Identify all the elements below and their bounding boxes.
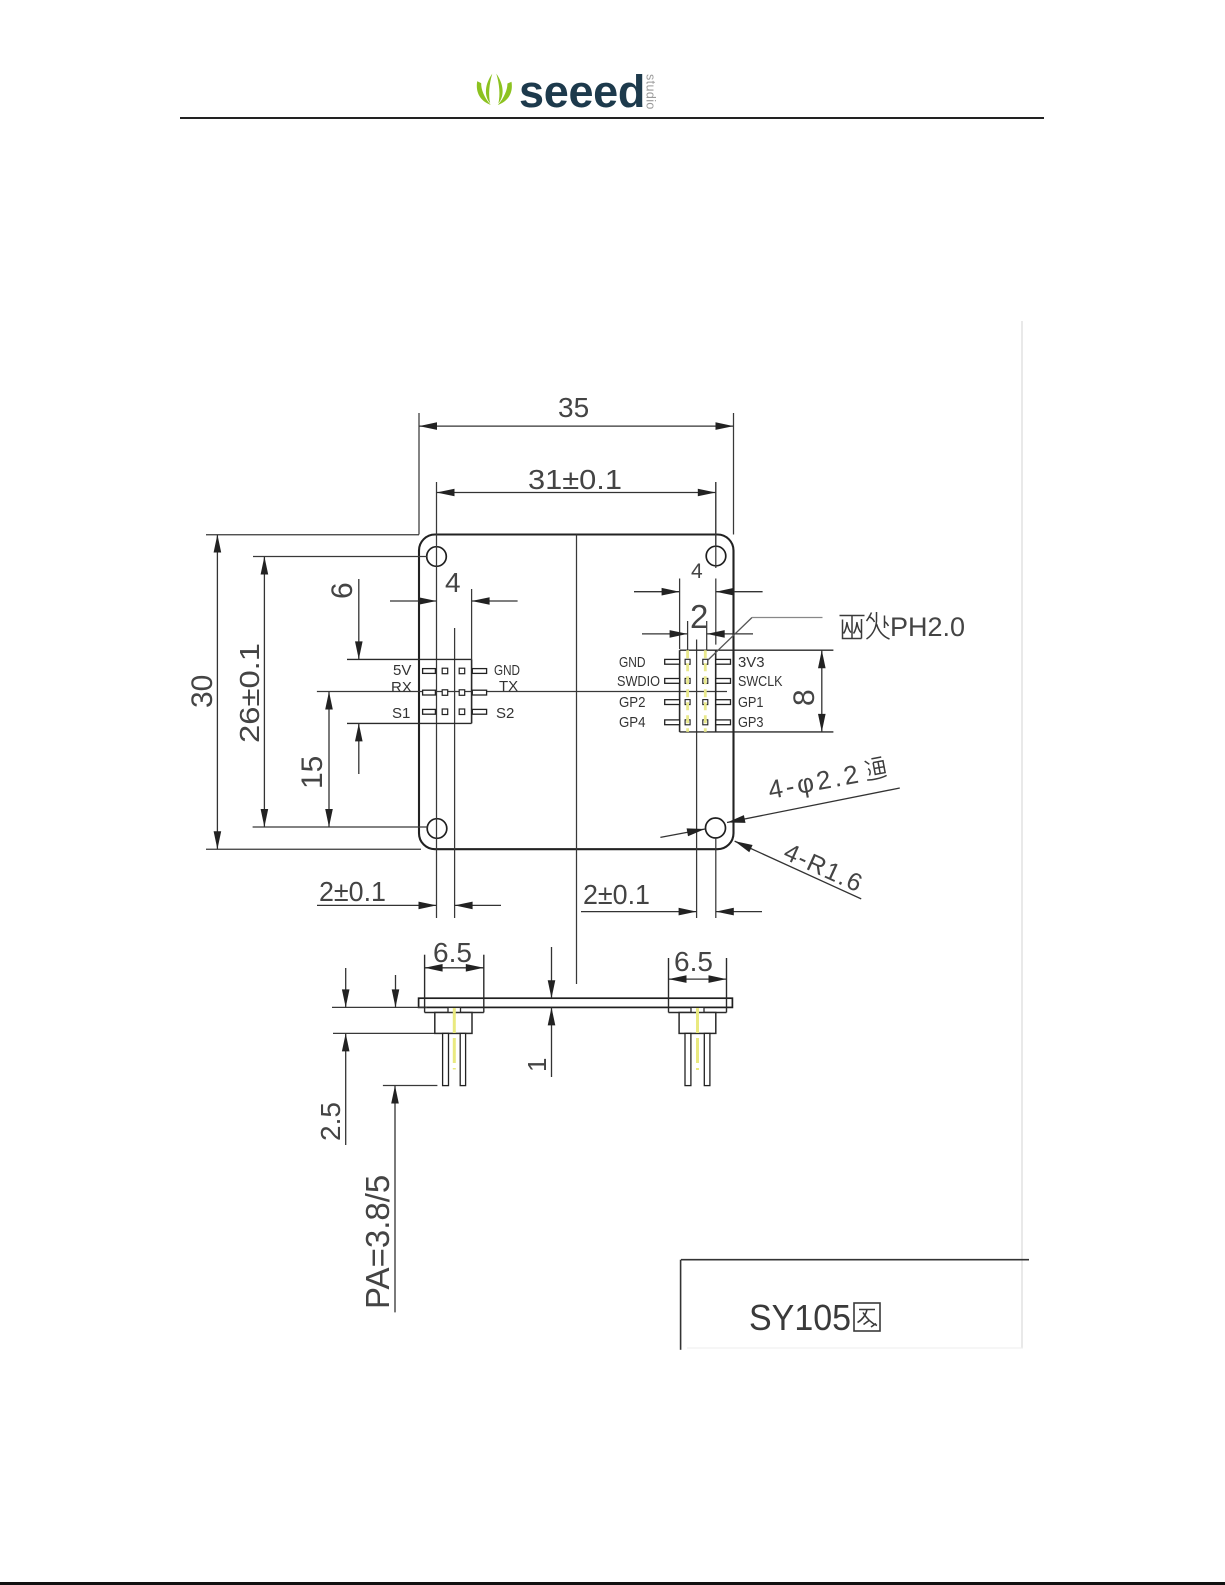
left connector J1 top view — [347, 659, 520, 723]
J2 left pads — [665, 659, 680, 724]
horizontal centerline middle row — [317, 691, 727, 693]
svg-text:2±0.1: 2±0.1 — [319, 876, 386, 907]
svg-text:GP1: GP1 — [738, 694, 764, 711]
svg-text:SWDIO: SWDIO — [617, 673, 660, 690]
centerline right connector vertical — [696, 640, 698, 919]
J2 body bottom edge with extension to 8 dim — [680, 731, 834, 733]
label CJK chu (place) — [867, 612, 890, 639]
extension line 31 right upper — [715, 482, 717, 546]
svg-text:2: 2 — [690, 598, 708, 635]
right header pin 1 — [685, 1033, 691, 1085]
seeed studio logo — [477, 66, 658, 117]
svg-text:S1: S1 — [392, 705, 410, 722]
svg-text:31±0.1: 31±0.1 — [528, 464, 622, 495]
svg-text:4: 4 — [691, 560, 703, 583]
svg-text:15: 15 — [296, 756, 329, 789]
svg-text:SWCLK: SWCLK — [738, 673, 783, 690]
right header notch — [691, 1007, 704, 1014]
right header block — [679, 1013, 716, 1034]
svg-text:RX: RX — [391, 679, 412, 696]
extension pins bottom left — [383, 1085, 438, 1087]
svg-text:GND: GND — [494, 662, 520, 679]
extension line 35 left — [418, 413, 420, 535]
svg-text:4-R1.6: 4-R1.6 — [780, 838, 868, 898]
extension plate bottom left — [332, 1006, 427, 1008]
dimension 31 +-0.1 — [437, 464, 716, 496]
centerline left connector vertical — [454, 628, 456, 918]
drawing frame faint right border — [1021, 321, 1023, 1348]
J2 body top edge with extension to 8 dim — [680, 649, 834, 651]
svg-text:26±0.1: 26±0.1 — [234, 643, 265, 743]
dimension 6 connector height — [326, 579, 363, 774]
title block left line — [680, 1260, 682, 1350]
svg-text:6.5: 6.5 — [433, 937, 472, 968]
extension top hole center left — [253, 556, 427, 558]
svg-text:GP2: GP2 — [619, 694, 646, 711]
left header yellow centerline — [453, 1008, 456, 1070]
side view left header — [425, 955, 484, 1086]
mounting hole bottom-left — [427, 819, 447, 839]
J1 body top edge with extension — [347, 658, 472, 660]
J2 pin squares — [685, 659, 708, 725]
J1 left pads — [423, 669, 436, 715]
right connector J2 top view — [617, 650, 833, 732]
extension board bottom edge left — [206, 848, 421, 850]
svg-text:studio: studio — [644, 74, 658, 110]
left header pin 1 — [443, 1033, 449, 1085]
label 4-dia2.2 — [766, 754, 888, 805]
left header pin 2 — [460, 1033, 465, 1085]
J2 yellow pin column lines — [686, 650, 689, 732]
dimension 30 vertical — [186, 535, 221, 850]
J2 right pads — [716, 659, 731, 724]
svg-text:5V: 5V — [393, 662, 411, 679]
leader 4-R1.6 corner radius — [735, 841, 862, 899]
svg-text:GP4: GP4 — [619, 714, 646, 731]
dimension 35 — [419, 392, 734, 430]
dimension 2 pin pitch — [642, 598, 753, 650]
label 4-R1.6 — [780, 838, 868, 898]
mounting hole top-left — [427, 547, 447, 567]
title CJK glyph tu (figure) — [854, 1303, 880, 1331]
svg-text:S2: S2 — [496, 705, 514, 722]
header rule — [180, 117, 1044, 119]
dimension 2+-0.1 bottom right — [581, 879, 762, 915]
dimension 1 plate thickness — [522, 947, 555, 1077]
right header lip bottom — [669, 1012, 727, 1014]
centerline through left holes vertical — [436, 482, 438, 918]
dimension 2+-0.1 bottom left — [317, 876, 501, 909]
left header lip bottom — [425, 1012, 484, 1014]
dimension 4 right connector — [634, 560, 763, 649]
svg-text:3V3: 3V3 — [738, 654, 765, 671]
extension bottom hole center left — [253, 826, 428, 828]
J2 body right edge — [715, 650, 717, 732]
svg-text:2±0.1: 2±0.1 — [583, 879, 650, 910]
dimension 2.5 header block — [315, 968, 350, 1145]
J1 right pads — [472, 669, 486, 715]
svg-text:PH2.0: PH2.0 — [890, 612, 965, 642]
label CJK liang (two) — [840, 616, 865, 639]
leader 4-dia2.2 through hole — [660, 788, 899, 837]
svg-text:6.5: 6.5 — [674, 946, 713, 977]
dimension PA=3.8/5 pin length — [359, 975, 399, 1312]
side view right header — [669, 958, 727, 1086]
dimension 8 connector height — [788, 650, 826, 732]
left header side edges — [424, 955, 426, 1013]
svg-text:35: 35 — [558, 392, 589, 423]
dimension 6.5 right header — [669, 946, 727, 983]
J2 body left edge — [679, 650, 681, 732]
svg-text:4: 4 — [445, 567, 461, 598]
left header block — [435, 1013, 472, 1034]
dimension 15 vertical — [296, 692, 333, 828]
right header yellow centerline — [696, 1008, 699, 1070]
left header notch — [448, 1007, 461, 1014]
PCB board outline top view — [419, 535, 734, 850]
svg-text:seeed: seeed — [519, 66, 645, 117]
board central vertical centerline — [576, 535, 578, 985]
dimension 26 +-0.1 vertical — [234, 557, 268, 828]
label CJK tong (through) — [864, 757, 887, 781]
right header side edges — [668, 958, 670, 1013]
svg-text:SY105: SY105 — [749, 1297, 851, 1338]
svg-text:1: 1 — [522, 1058, 552, 1072]
side view PCB plate — [419, 998, 733, 1007]
svg-text:8: 8 — [788, 689, 821, 706]
J1 pin squares — [442, 668, 465, 714]
logo leaf icon — [477, 74, 512, 105]
drawing frame faint bottom border — [687, 1347, 1023, 1349]
J1 body bottom edge with extension — [347, 722, 472, 724]
svg-text:6: 6 — [326, 582, 359, 599]
svg-text:2.5: 2.5 — [315, 1102, 346, 1141]
svg-text:TX: TX — [499, 678, 518, 695]
svg-text:GND: GND — [619, 654, 646, 671]
centerline right holes vertical segment above — [715, 482, 717, 918]
extension board top edge left — [206, 534, 419, 536]
leader PH2.0 — [708, 618, 823, 661]
mounting hole top-right — [706, 546, 726, 566]
mounting hole bottom-right — [706, 818, 726, 838]
svg-text:GP3: GP3 — [738, 714, 764, 731]
title block top line — [681, 1259, 1029, 1261]
svg-text:PA=3.8/5: PA=3.8/5 — [359, 1175, 396, 1309]
bottom page edge bar — [0, 1582, 1225, 1585]
J1 body right edge — [471, 659, 473, 723]
dimension 6.5 left header — [425, 937, 484, 972]
right header pin 2 — [704, 1033, 710, 1085]
extension line 35 right — [733, 413, 735, 535]
svg-text:30: 30 — [186, 675, 219, 708]
dimension 4 left connector — [390, 567, 518, 659]
extension block bottom left — [333, 1032, 435, 1034]
